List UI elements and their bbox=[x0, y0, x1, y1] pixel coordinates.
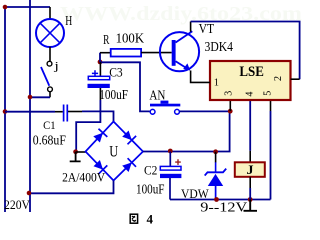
wire C2 bottom lead bbox=[169, 178, 171, 200]
wire C1 left lead bbox=[55, 111, 63, 113]
bridge diode upper-right bbox=[122, 131, 136, 145]
svg-text:C2: C2 bbox=[144, 162, 157, 177]
wire C2 top lead bbox=[169, 152, 171, 167]
svg-text:j: j bbox=[53, 58, 59, 72]
wire C3 jog to bridge-left node bbox=[76, 100, 100, 152]
capacitor C3 plus sign bbox=[92, 70, 98, 76]
wire DC+ from bridge right bbox=[143, 111, 230, 151]
node R-C3-AN junction bbox=[98, 60, 103, 65]
node VDW top bbox=[213, 149, 218, 154]
wire AN to pin3 node bbox=[180, 110, 231, 112]
wire top-left horizontal bbox=[5, 6, 50, 8]
wire left rail L1 bbox=[4, 7, 6, 212]
svg-text:2: 2 bbox=[273, 76, 284, 81]
bridge rectifier U diamond bbox=[86, 122, 144, 181]
svg-text:3DK4: 3DK4 bbox=[205, 40, 234, 55]
svg-text:100uF: 100uF bbox=[136, 182, 165, 197]
capacitor C2 plus sign bbox=[175, 159, 181, 165]
svg-text:LSE: LSE bbox=[239, 64, 264, 80]
capacitor C3 bbox=[88, 76, 110, 88]
node junction top-left bbox=[3, 5, 8, 10]
wire R right lead to base bbox=[141, 52, 172, 54]
node pin3-AN-DC junction bbox=[228, 109, 233, 114]
svg-text:U: U bbox=[109, 144, 118, 161]
ground at bridge-left bbox=[70, 152, 81, 161]
svg-text:C3: C3 bbox=[109, 64, 123, 79]
wire C3 top lead bbox=[99, 62, 101, 76]
svg-text:AN: AN bbox=[149, 87, 165, 102]
transistor VT bbox=[160, 31, 199, 71]
svg-text:H: H bbox=[65, 13, 72, 28]
wire C3 bottom lead bbox=[99, 88, 101, 100]
relay J box bbox=[235, 162, 265, 177]
node C1 junction on rail L1 bbox=[3, 109, 8, 114]
svg-text:4: 4 bbox=[244, 92, 255, 97]
node VDW bottom bbox=[214, 197, 219, 202]
wire switch bottom stub bbox=[49, 92, 51, 98]
svg-text:0.68uF: 0.68uF bbox=[33, 134, 66, 149]
caption figure 4 glyph bbox=[130, 214, 137, 223]
wire pin2 stub bbox=[291, 78, 300, 80]
switch j top contact bbox=[47, 61, 52, 66]
wire switch to rail L2 bbox=[30, 96, 51, 98]
wire node to bridge left vertex bbox=[76, 151, 86, 153]
wire top loop to pin2 bbox=[191, 22, 300, 80]
svg-text:220V: 220V bbox=[4, 197, 31, 212]
wire LSE pin4 to J bbox=[249, 100, 251, 151]
pushbutton AN bbox=[150, 101, 180, 115]
svg-text:2A/400V: 2A/400V bbox=[62, 170, 105, 184]
bridge diode upper-left bbox=[93, 129, 107, 143]
svg-text:VT: VT bbox=[199, 21, 215, 36]
wire J top stub bbox=[249, 151, 251, 163]
node switch-rail junction bbox=[28, 95, 33, 100]
svg-text:J: J bbox=[247, 162, 255, 177]
wire bottom DC rail bbox=[170, 199, 271, 201]
wire VDW top lead bbox=[215, 152, 217, 163]
capacitor C2 bbox=[160, 166, 181, 178]
wire J to bottom rail bbox=[249, 188, 251, 200]
node C2 junction bbox=[168, 149, 173, 154]
ground bottom-right bbox=[244, 200, 258, 211]
wire R left lead bbox=[100, 52, 111, 54]
svg-text:5: 5 bbox=[263, 91, 274, 96]
wire collector up bbox=[190, 22, 192, 32]
wire lamp top lead bbox=[49, 7, 51, 19]
svg-text:R: R bbox=[103, 32, 109, 47]
wire lamp bottom lead bbox=[49, 47, 51, 61]
node bridge-left junction bbox=[73, 149, 78, 154]
wire emitter to pin1 bbox=[191, 71, 210, 83]
svg-text:100K: 100K bbox=[116, 31, 145, 46]
wire LSE pin5 bbox=[270, 111, 272, 200]
svg-text:100uF: 100uF bbox=[99, 88, 128, 103]
node bottom rail junction bbox=[27, 191, 32, 196]
bridge diode lower-right bbox=[122, 158, 136, 172]
lamp H bbox=[36, 19, 64, 47]
zener diode VDW bbox=[205, 162, 227, 199]
svg-text:VDW: VDW bbox=[181, 186, 209, 201]
svg-text:3: 3 bbox=[224, 91, 235, 96]
IC U1 LSE box bbox=[210, 61, 291, 100]
switch j bottom contact bbox=[48, 87, 53, 92]
wire J bottom stub bbox=[249, 177, 251, 188]
svg-text:1: 1 bbox=[214, 77, 219, 88]
svg-text:4: 4 bbox=[147, 212, 154, 226]
svg-text:C1: C1 bbox=[43, 120, 56, 132]
wire C1 to bridge top bbox=[82, 111, 114, 121]
wire node to AN bbox=[100, 62, 150, 111]
switch j blade bbox=[41, 67, 49, 86]
wire LSE pin3 stub bbox=[229, 100, 231, 111]
bridge diode lower-left bbox=[94, 160, 108, 174]
wire node up to R bbox=[99, 53, 101, 62]
wire bridge bottom to AC rail bbox=[29, 181, 114, 194]
svg-text:9--12V: 9--12V bbox=[200, 200, 247, 215]
wire LSE pin5 stub bbox=[270, 100, 272, 111]
wire C1 right lead bbox=[68, 111, 82, 113]
capacitor C1 bbox=[64, 105, 68, 122]
wire rail L2 bbox=[29, 0, 31, 212]
wire rail to C1 bbox=[5, 111, 55, 113]
node J bottom bbox=[248, 197, 253, 202]
resistor R bbox=[111, 49, 141, 57]
